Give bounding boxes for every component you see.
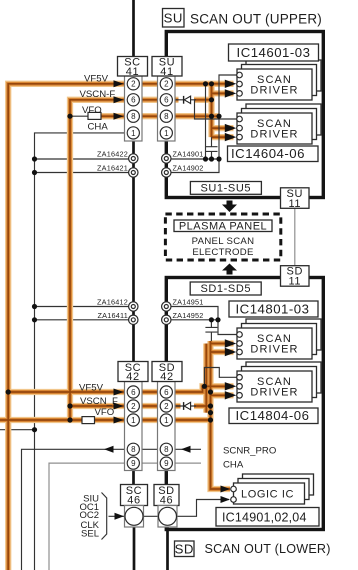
arrowheads into scan driver stacks	[225, 80, 237, 400]
svg-text:PANEL SCAN: PANEL SCAN	[192, 236, 255, 247]
wire diode row upper pin6 to bus	[172, 99, 197, 101]
svg-text:IC14604-06: IC14604-06	[231, 146, 305, 161]
terminal ZA14951	[162, 298, 204, 312]
scan driver stack IC14801-03	[237, 319, 321, 359]
svg-text:SD1-SD5: SD1-SD5	[200, 283, 251, 295]
svg-text:SEL: SEL	[81, 529, 99, 540]
svg-text:IC14601-03: IC14601-03	[237, 45, 311, 60]
svg-text:IC14901,02,04: IC14901,02,04	[222, 511, 307, 525]
svg-text:ZA16422: ZA16422	[97, 150, 128, 159]
svg-text:46: 46	[127, 494, 140, 506]
svg-text:8: 8	[164, 445, 169, 454]
svg-text:9: 9	[164, 459, 169, 468]
svg-text:6: 6	[131, 96, 136, 105]
svg-text:VFO: VFO	[95, 407, 115, 418]
resistor R2 lower VFO	[82, 417, 95, 424]
svg-text:2: 2	[131, 402, 136, 411]
scan driver stack IC14604-06	[237, 104, 321, 144]
orange wire mid strokes	[0, 84, 234, 570]
label box SD1-SD5	[190, 282, 261, 295]
svg-text:2: 2	[164, 402, 169, 411]
svg-text:2: 2	[164, 80, 169, 89]
diode D1 upper	[184, 96, 191, 104]
connector SD42	[152, 362, 182, 471]
wire CHA upper rail x=34.5	[35, 133, 130, 570]
svg-text:1: 1	[164, 129, 169, 138]
logic IC stack IC14901	[234, 474, 314, 504]
svg-text:ELECTRODE: ELECTRODE	[192, 247, 253, 258]
svg-text:DRIVER: DRIVER	[250, 128, 298, 140]
thick cable column SC low	[132, 471, 135, 570]
wire CHA to left page edge	[0, 429, 35, 431]
scan driver input pins stack2	[237, 116, 243, 140]
connector SD46	[154, 485, 179, 528]
plasma panel dashed block	[165, 214, 280, 260]
thick cable column SU/SD	[166, 32, 167, 570]
wire SU11 to SD11 link	[294, 208, 296, 265]
svg-text:VF5V: VF5V	[79, 383, 104, 394]
thick cable column SC mid	[132, 141, 135, 362]
capacitor upper C1 between bus and ZA row	[206, 137, 218, 159]
svg-text:2: 2	[131, 80, 136, 89]
svg-text:CHA: CHA	[223, 460, 244, 471]
label box IC14901,02,04	[216, 508, 319, 527]
svg-text:41: 41	[126, 66, 139, 78]
svg-text:ZA16412: ZA16412	[97, 298, 128, 307]
scan driver input pins upper stack1	[237, 72, 243, 96]
title SU box	[163, 9, 185, 28]
enclosure SU scan out upper	[166, 32, 323, 198]
terminal ZA14952	[162, 311, 204, 325]
svg-text:SU: SU	[164, 11, 183, 26]
connector SC41	[118, 57, 148, 142]
scan driver stack IC14601-03	[237, 60, 321, 100]
wire ZA16412 row	[35, 306, 130, 308]
label box IC14604-06	[228, 146, 319, 162]
scan driver input pins stack4	[237, 375, 243, 399]
svg-text:ZA14952: ZA14952	[173, 311, 204, 320]
connector box SU11	[281, 188, 310, 210]
block arrow down to plasma panel	[222, 201, 237, 213]
pins SD42: 6,2,1,8,9	[160, 386, 172, 469]
terminal ZA14902	[162, 164, 204, 178]
svg-text:CHA: CHA	[88, 122, 109, 133]
svg-text:1: 1	[131, 129, 136, 138]
orange wire halos	[0, 84, 234, 570]
svg-text:PLASMA PANEL: PLASMA PANEL	[179, 220, 267, 232]
pins SU41: 2,6,8,1	[160, 78, 172, 139]
svg-text:8: 8	[131, 445, 136, 454]
svg-text:SU1-SU5: SU1-SU5	[200, 183, 251, 195]
connector SC46	[121, 485, 148, 528]
connector box SD11	[281, 266, 310, 288]
svg-text:SCNR_PRO: SCNR_PRO	[223, 446, 276, 457]
svg-text:ZA16411: ZA16411	[98, 311, 128, 320]
svg-text:LOGIC IC: LOGIC IC	[241, 489, 294, 501]
svg-text:VF5V: VF5V	[84, 74, 109, 85]
svg-text:DRIVER: DRIVER	[250, 343, 298, 355]
svg-text:6: 6	[131, 388, 136, 397]
block arrow up to SD section	[222, 264, 237, 275]
svg-text:1: 1	[164, 416, 169, 425]
svg-text:DRIVER: DRIVER	[250, 386, 298, 398]
svg-text:41: 41	[160, 66, 173, 78]
svg-text:6: 6	[164, 96, 169, 105]
pins SC41: 2,6,8,1	[127, 78, 139, 139]
wire ZA16411 row	[35, 319, 130, 321]
svg-text:DRIVER: DRIVER	[250, 84, 298, 96]
svg-text:11: 11	[288, 276, 301, 288]
scan driver input pins stack3	[237, 332, 243, 355]
terminal ZA16421	[97, 164, 138, 178]
svg-text:11: 11	[288, 198, 301, 210]
connector SU41	[152, 57, 182, 142]
arrowheads into SC41 rows	[114, 80, 124, 119]
svg-text:IC14804-06: IC14804-06	[236, 408, 310, 423]
scan driver stack IC14804-06	[237, 362, 321, 402]
logic IC input pins	[231, 486, 237, 502]
label box SU1-SU5	[190, 182, 261, 195]
wire ZA16422 row	[35, 158, 130, 160]
svg-text:VFO: VFO	[82, 105, 102, 116]
wire SCNR_PRO rail x=21.5	[22, 449, 202, 570]
svg-text:ZA14902: ZA14902	[173, 164, 204, 173]
terminal ZA16422	[97, 150, 138, 164]
svg-text:6: 6	[164, 388, 169, 397]
wire diode row lower SD42 pin2 to diode	[172, 405, 197, 407]
arrowheads into SC42 rows	[114, 389, 124, 424]
svg-text:ZA16421: ZA16421	[97, 164, 128, 173]
svg-text:42: 42	[126, 371, 139, 383]
arrowheads into LOGIC IC	[221, 486, 231, 504]
signal labels SC46 bundle	[79, 493, 106, 540]
resistor R1 upper VFO	[88, 112, 101, 119]
wire VF5V upper tap x=205.5 vertical	[205, 84, 207, 159]
svg-text:ZA14901: ZA14901	[173, 150, 204, 159]
thick cable column SC top	[132, 0, 135, 57]
capacitor lower C2	[205, 320, 217, 341]
svg-text:SCAN OUT (UPPER): SCAN OUT (UPPER)	[190, 12, 322, 27]
terminal ZA16412	[97, 298, 138, 312]
svg-text:8: 8	[164, 112, 169, 121]
terminal ZA14901	[162, 150, 204, 164]
svg-text:9: 9	[131, 459, 136, 468]
wire ZA16421 row	[35, 172, 130, 174]
wire SC46 input line	[109, 500, 230, 517]
wire stack1 white pin link x=219 vertical	[172, 75, 238, 173]
svg-text:42: 42	[160, 371, 173, 383]
wire CHA lower rail x=49	[49, 463, 201, 570]
wire stack4 white pin link	[204, 368, 238, 387]
arrowhead into SC46	[115, 513, 125, 520]
label box IC14801-03	[229, 301, 318, 317]
pins SC42: 6,2,1,8,9	[127, 386, 139, 469]
svg-text:1: 1	[131, 416, 136, 425]
svg-text:VSCN_F: VSCN_F	[80, 396, 118, 407]
svg-text:8: 8	[131, 112, 136, 121]
svg-text:ZA14951: ZA14951	[173, 298, 204, 307]
label box IC14804-06	[229, 408, 318, 424]
title SD box	[175, 541, 195, 557]
orange wire dark cores	[0, 84, 234, 570]
svg-text:SD: SD	[175, 542, 194, 557]
diode D2 lower	[184, 402, 191, 410]
arrowheads SCNR_PRO pointing left	[104, 446, 191, 453]
svg-text:46: 46	[160, 494, 173, 506]
terminal ZA16411	[98, 311, 138, 325]
svg-text:VSCN-F: VSCN-F	[80, 89, 116, 100]
connector SC42	[118, 362, 148, 471]
enclosure SD scan out lower	[166, 278, 323, 530]
wire stack2 white pin link x=194.5	[195, 100, 238, 119]
svg-text:IC14801-03: IC14801-03	[236, 302, 310, 317]
svg-text:SCAN OUT (LOWER): SCAN OUT (LOWER)	[205, 542, 331, 556]
wire ZA14951 row to stack3 white pin	[172, 307, 238, 335]
label box IC14601-03	[229, 44, 319, 61]
wire VFO upper resistor input from VSCN rail	[70, 115, 88, 117]
